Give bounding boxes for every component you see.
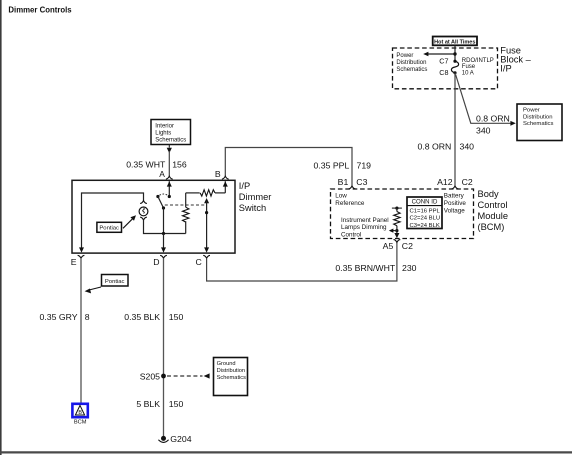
switch internal: A feed with up arrow <box>167 181 172 198</box>
svg-text:10 A: 10 A <box>462 70 474 76</box>
svg-text:G204: G204 <box>170 434 191 444</box>
svg-text:230: 230 <box>402 263 417 273</box>
svg-text:C8: C8 <box>439 68 448 77</box>
instrument panel lamps dimming control label <box>341 217 389 239</box>
svg-text:Power: Power <box>396 53 413 59</box>
svg-text:Schematics: Schematics <box>523 121 554 127</box>
svg-text:719: 719 <box>357 161 372 171</box>
wire branch diagonal to power distribution <box>456 75 516 126</box>
svg-text:150: 150 <box>169 399 184 409</box>
Pontiac callout (lamp) <box>97 215 136 232</box>
fuse RDO/INTLP 10A <box>451 60 458 75</box>
wire C to BCM A5 (0.35 BRN/WHT 230) <box>207 243 397 281</box>
svg-text:Switch: Switch <box>239 203 266 213</box>
interior lights schematics box <box>151 120 191 145</box>
internal wire to lamp and E <box>82 193 144 249</box>
svg-text:Control: Control <box>341 231 361 238</box>
svg-text:Dimmer: Dimmer <box>239 192 272 202</box>
CONN ID table <box>407 197 442 229</box>
svg-text:Pontiac: Pontiac <box>99 226 119 232</box>
wire D internal with arrow <box>161 234 166 253</box>
svg-text:A5: A5 <box>383 241 394 251</box>
svg-text:0.35 PPL: 0.35 PPL <box>314 161 350 171</box>
svg-text:A12: A12 <box>437 177 453 187</box>
power distribution schematics note (in fuse block) <box>396 53 427 73</box>
connector C <box>203 255 210 258</box>
svg-text:Low: Low <box>335 193 347 200</box>
svg-text:Ground: Ground <box>217 361 236 367</box>
svg-text:340: 340 <box>476 126 491 136</box>
arrow to power distribution schematics <box>423 52 456 57</box>
svg-text:Distribution: Distribution <box>523 114 552 120</box>
svg-text:Pontiac: Pontiac <box>105 279 125 285</box>
connector B <box>222 176 229 179</box>
svg-text:B: B <box>215 169 221 179</box>
power distribution schematics box (right) <box>517 104 562 141</box>
svg-text:Distribution: Distribution <box>396 60 426 66</box>
wire D 0.35 BLK 150 <box>163 258 165 437</box>
svg-text:Body: Body <box>478 189 500 199</box>
label 0.35 PPL 719 <box>314 161 372 171</box>
svg-text:C2=24 BLU: C2=24 BLU <box>410 216 441 222</box>
label 5 BLK 150 <box>136 399 183 409</box>
svg-text:BCM: BCM <box>74 420 87 426</box>
svg-text:156: 156 <box>172 160 187 170</box>
node D junction <box>162 232 165 235</box>
dashed reference to ground distribution <box>167 373 210 378</box>
svg-text:0.35 BLK: 0.35 BLK <box>124 312 160 322</box>
svg-text:0.8 ORN: 0.8 ORN <box>418 141 452 151</box>
svg-text:C: C <box>196 257 202 267</box>
svg-text:C7: C7 <box>439 56 448 65</box>
switch blade <box>156 194 167 210</box>
wire from hot feed into fuse <box>454 45 456 61</box>
svg-text:(BCM): (BCM) <box>478 222 505 232</box>
svg-text:D: D <box>153 257 159 267</box>
svg-text:Control: Control <box>478 200 508 210</box>
BCM label <box>478 189 509 232</box>
label 0.35 WHT 156 <box>126 160 187 170</box>
svg-text:340: 340 <box>460 141 475 151</box>
svg-text:Schematics: Schematics <box>396 67 427 73</box>
I/P dimmer switch label <box>239 181 272 213</box>
mechanical linkage dashed <box>165 204 207 206</box>
connector D <box>160 255 167 258</box>
svg-text:0.35 BRN/WHT: 0.35 BRN/WHT <box>335 263 396 273</box>
connector B1/C3 <box>349 186 356 189</box>
body control module dashed box <box>331 189 474 239</box>
svg-text:CONN ID: CONN ID <box>412 199 438 206</box>
fuse block label <box>500 46 531 74</box>
svg-text:Dimmer Controls: Dimmer Controls <box>8 5 72 14</box>
svg-text:Hot at All Times: Hot at All Times <box>434 39 475 45</box>
wire from switch contact down <box>163 208 165 234</box>
connector E <box>78 255 85 258</box>
I/P dimmer switch box <box>72 180 235 253</box>
svg-text:B1: B1 <box>338 177 349 187</box>
ground G204 <box>158 434 191 444</box>
svg-text:0.8 ORN: 0.8 ORN <box>476 114 510 124</box>
connector A12/C2 <box>452 186 459 189</box>
svg-text:150: 150 <box>169 312 184 322</box>
lamp terminal top <box>140 201 147 204</box>
connector A5/C2 <box>394 240 401 243</box>
svg-text:RDO/INTLP: RDO/INTLP <box>462 58 494 64</box>
splice S205 <box>140 372 166 382</box>
lamp terminal bottom <box>140 217 147 220</box>
fuse value label <box>462 58 494 76</box>
svg-text:Lights: Lights <box>155 131 171 137</box>
connector A <box>166 176 173 179</box>
wire 0.35 PPL 719 (B to BCM B1) <box>225 148 352 187</box>
svg-text:Schematics: Schematics <box>155 138 186 144</box>
svg-text:Instrument Panel: Instrument Panel <box>341 217 389 224</box>
wire E 0.35 GRY 8 <box>80 258 82 403</box>
svg-text:Distribution: Distribution <box>217 368 245 374</box>
svg-text:I/P: I/P <box>239 181 250 191</box>
svg-text:Power: Power <box>523 108 540 114</box>
ground distribution schematics box <box>214 358 248 396</box>
svg-text:0.35 GRY: 0.35 GRY <box>40 312 78 322</box>
label 0.35 BLK 150 <box>124 312 183 322</box>
label 0.8 ORN 340 (main) <box>418 141 475 151</box>
svg-text:8: 8 <box>85 312 90 322</box>
svg-text:C2: C2 <box>402 241 413 251</box>
Pontiac callout (E wire) <box>85 275 128 294</box>
svg-text:Reference: Reference <box>335 200 365 207</box>
svg-text:Lamps Dimming: Lamps Dimming <box>341 224 387 231</box>
low reference label <box>335 193 365 207</box>
lamp (Pontiac illumination bulb) <box>139 207 148 216</box>
potentiometer resistor chain from B <box>183 181 228 233</box>
svg-text:Fuse: Fuse <box>462 64 476 70</box>
svg-text:C1=16 PPL: C1=16 PPL <box>410 208 441 214</box>
svg-text:Voltage: Voltage <box>444 207 466 214</box>
arrow down to E <box>79 247 84 252</box>
label 0.35 BRN/WHT 230 <box>335 263 416 273</box>
svg-text:Battery: Battery <box>444 193 465 200</box>
svg-text:Interior: Interior <box>155 123 174 129</box>
svg-text:E: E <box>71 257 77 267</box>
wire 0.8 ORN 340 to BCM A12 <box>454 73 456 186</box>
BCM internal resistor <box>389 207 402 239</box>
label 0.35 GRY 8 <box>40 312 90 322</box>
Hot at All Times box <box>433 37 477 46</box>
potentiometer wiper to C <box>204 198 209 253</box>
battery positive voltage label <box>444 193 467 215</box>
svg-text:Schematics: Schematics <box>217 375 247 381</box>
wire from interior lights box with arrow <box>167 145 172 177</box>
fuse block I/P dashed box <box>393 48 498 89</box>
label 0.8 ORN 340 (branch) <box>476 114 510 136</box>
svg-text:A: A <box>159 169 165 179</box>
BCM reference symbol <box>72 404 87 426</box>
svg-text:C3: C3 <box>356 177 367 187</box>
svg-text:C2: C2 <box>462 177 473 187</box>
svg-text:0.35 WHT: 0.35 WHT <box>126 160 166 170</box>
svg-text:Module: Module <box>478 211 509 221</box>
svg-text:Positive: Positive <box>444 200 467 207</box>
svg-text:B: B <box>78 410 82 416</box>
svg-text:C3=24 BLK: C3=24 BLK <box>410 223 440 229</box>
svg-text:5 BLK: 5 BLK <box>136 399 160 409</box>
wire lamp bottom to D junction <box>144 220 186 234</box>
svg-text:S205: S205 <box>140 372 160 382</box>
svg-text:I/P: I/P <box>500 64 511 74</box>
